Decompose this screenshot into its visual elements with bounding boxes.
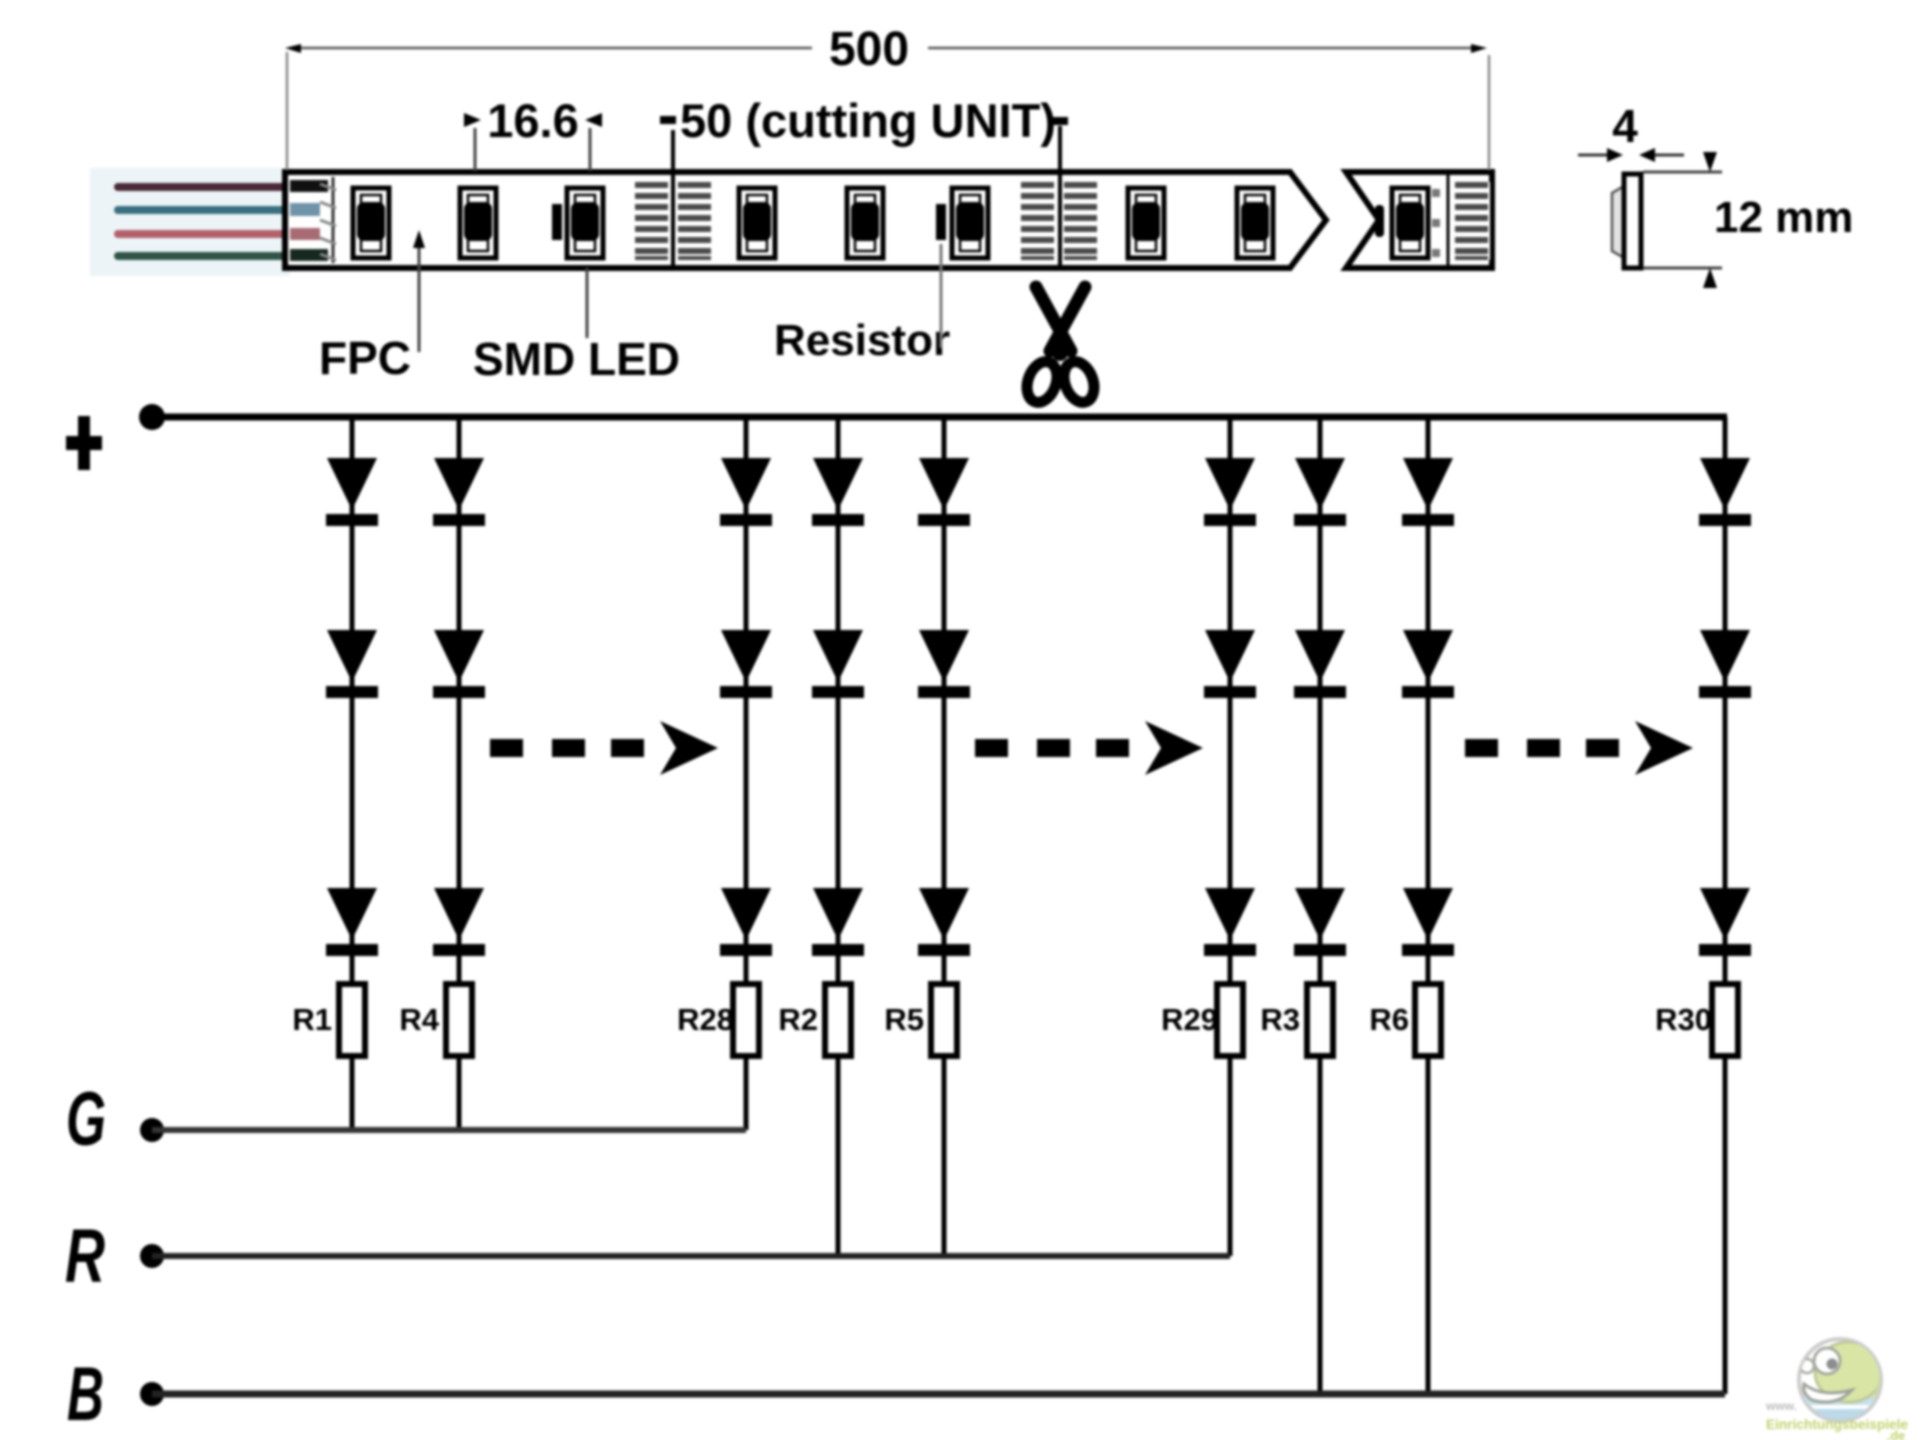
svg-text:FPC: FPC bbox=[319, 332, 411, 384]
svg-text:SMD LED: SMD LED bbox=[473, 333, 680, 385]
svg-text:R6: R6 bbox=[1369, 1002, 1409, 1037]
svg-text:R3: R3 bbox=[1260, 1002, 1300, 1037]
svg-text:500: 500 bbox=[829, 23, 909, 76]
svg-text:R29: R29 bbox=[1161, 1002, 1218, 1037]
svg-text:www.: www. bbox=[1765, 1399, 1797, 1413]
svg-text:12 mm: 12 mm bbox=[1714, 193, 1853, 242]
svg-text:R1: R1 bbox=[292, 1002, 332, 1037]
svg-text:B: B bbox=[67, 1352, 104, 1437]
svg-text:R4: R4 bbox=[399, 1002, 439, 1037]
svg-text:R5: R5 bbox=[884, 1002, 924, 1037]
svg-text:R28: R28 bbox=[677, 1002, 734, 1037]
svg-text:G: G bbox=[66, 1077, 106, 1162]
svg-text:Resistor: Resistor bbox=[774, 316, 950, 365]
svg-text:4: 4 bbox=[1612, 100, 1638, 152]
svg-text:16.6: 16.6 bbox=[487, 94, 578, 147]
svg-text:50 (cutting UNIT): 50 (cutting UNIT) bbox=[680, 94, 1056, 147]
svg-text:R30: R30 bbox=[1655, 1002, 1712, 1037]
svg-text:R: R bbox=[65, 1214, 105, 1299]
svg-text:.de: .de bbox=[1887, 1429, 1905, 1440]
svg-text:R2: R2 bbox=[778, 1002, 818, 1037]
